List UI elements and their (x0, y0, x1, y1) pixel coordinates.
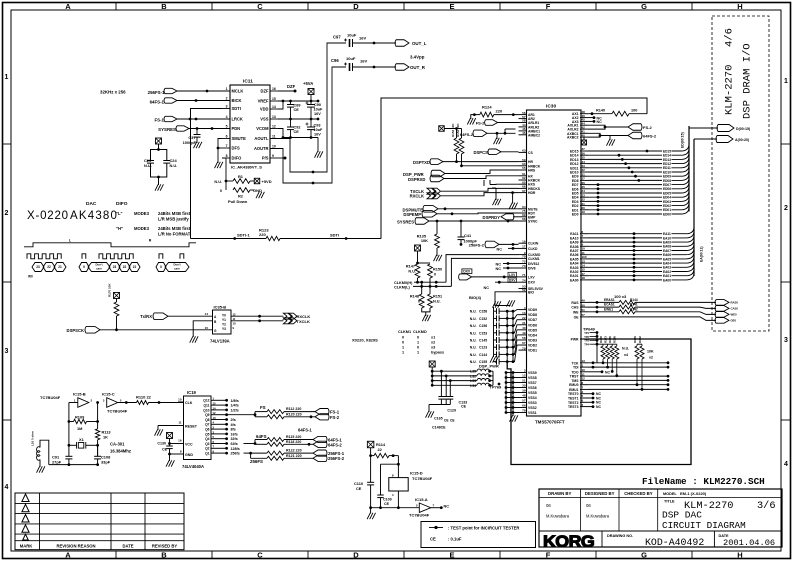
svg-text:DSPRXD: DSPRXD (408, 177, 425, 182)
svg-text:0: 0 (160, 265, 162, 269)
svg-text:N.U.: N.U. (433, 300, 441, 304)
svg-text:DESIGNED BY: DESIGNED BY (585, 491, 615, 496)
resistors ERAS1 R144 rows 100 x3 (588, 294, 738, 323)
wire VCOM to lower rail and ground (278, 129, 323, 158)
svg-text:x1: x1 (431, 336, 435, 340)
op IC35-B 74LV139A (205, 305, 236, 344)
svg-text:14: 14 (205, 312, 209, 316)
svg-text:3/6: 3/6 (757, 500, 776, 512)
node P/S test point (278, 157, 287, 160)
node DXV wire NC (484, 278, 519, 290)
svg-text:Pull Down: Pull Down (228, 199, 248, 204)
node DSPRDY output (483, 214, 519, 223)
revision table (15, 493, 184, 550)
svg-text:16V: 16V (360, 59, 367, 64)
svg-text:x4: x4 (624, 353, 628, 357)
svg-text:VREF: VREF (258, 99, 269, 104)
svg-text:C156: C156 (479, 324, 487, 328)
svg-text:TP4: TP4 (584, 343, 589, 347)
svg-text:CE: CE (444, 419, 449, 423)
capacitors C133 C129 C165 CE (426, 370, 468, 430)
svg-text:Q1: Q1 (205, 452, 210, 456)
node SYSRES input connector (158, 126, 230, 132)
wire AOUTR to C96 (270, 67, 346, 184)
test point TP649 block (583, 327, 598, 363)
nodes NC on AX2 AX3 (588, 116, 602, 124)
svg-text:FileName : KLM2270.SCH: FileName : KLM2270.SCH (642, 476, 765, 487)
svg-text:27pF: 27pF (52, 460, 62, 465)
svg-text:21: 21 (522, 379, 526, 383)
svg-text:SMUTE: SMUTE (232, 136, 247, 141)
svg-text:CLKIN: CLKIN (528, 242, 539, 246)
svg-text:220: 220 (496, 108, 503, 113)
svg-text:VSS9: VSS9 (528, 371, 537, 375)
svg-text:R140: R140 (596, 109, 605, 113)
svg-text:ED0: ED0 (572, 213, 579, 217)
svg-text:KLM-2270: KLM-2270 (724, 65, 736, 115)
svg-text:DIFO: DIFO (232, 156, 243, 161)
svg-text:VDD6: VDD6 (528, 323, 537, 327)
svg-text:OE: OE (574, 315, 580, 319)
svg-text:DXV: DXV (463, 270, 471, 274)
svg-text:X0220, X829S: X0220, X829S (352, 338, 378, 343)
svg-text:1: 1 (417, 341, 419, 345)
svg-text:H: H (737, 551, 742, 560)
svg-text:FS-1: FS-1 (154, 118, 164, 123)
svg-text:IC19: IC19 (187, 390, 197, 395)
svg-text:R132: R132 (638, 336, 642, 343)
svg-text:Tx/RX: Tx/RX (140, 314, 152, 319)
svg-text:CA-301: CA-301 (110, 442, 125, 447)
power and capacitor C130 CE on VCC (157, 433, 174, 467)
resistors R130 R132 10K x2 (633, 336, 654, 391)
svg-text:64FS: 64FS (256, 434, 267, 439)
svg-text:21: 21 (58, 265, 62, 269)
svg-text:23: 23 (36, 265, 40, 269)
svg-text:R147: R147 (406, 265, 415, 269)
svg-text:NC: NC (496, 267, 502, 271)
svg-text:R170 10K: R170 10K (108, 283, 112, 297)
IC30 right pins (567, 110, 588, 409)
svg-text:C152: C152 (479, 317, 487, 321)
capacitor C92 CE (287, 119, 300, 138)
wire SDTI up and over to AX1 (381, 98, 647, 239)
svg-text:1: 1 (417, 351, 419, 355)
svg-text:N.U.: N.U. (214, 180, 222, 184)
svg-text:C93: C93 (314, 124, 321, 128)
svg-text:DIV8: DIV8 (528, 267, 536, 271)
svg-text:64FS-2: 64FS-2 (328, 442, 342, 447)
nodes 64FS-1 64FS-2 connectors (313, 436, 342, 447)
svg-text:Q8: Q8 (205, 418, 210, 422)
svg-text:SYNC: SYNC (528, 220, 538, 224)
svg-text:Q9: Q9 (205, 413, 210, 417)
svg-text:24Bits MSB first: 24Bits MSB first (158, 226, 191, 231)
svg-text:R133: R133 (603, 336, 607, 343)
node D(00:15) connector (717, 125, 751, 132)
svg-text:NC: NC (496, 263, 502, 267)
svg-text:N.U.: N.U. (170, 163, 178, 168)
svg-text:Q7: Q7 (205, 423, 210, 427)
svg-text:EMU0: EMU0 (569, 383, 579, 387)
svg-text:TP649: TP649 (583, 327, 596, 332)
svg-text:22: 22 (47, 265, 51, 269)
svg-text:E: E (449, 551, 454, 560)
node FS-1 input connector (154, 116, 230, 122)
svg-text:R148: R148 (410, 295, 419, 299)
svg-text:2: 2 (226, 97, 228, 101)
svg-text:care: care (96, 267, 102, 271)
svg-text:Y1: Y1 (222, 318, 226, 322)
svg-text:1: 1 (402, 346, 404, 350)
svg-text:10K: 10K (647, 350, 654, 354)
svg-text:CLKM1: CLKM1 (528, 257, 540, 261)
svg-text:VSS2: VSS2 (528, 406, 537, 410)
svg-text:REVISED BY: REVISED BY (152, 544, 178, 549)
svg-text:VSS1: VSS1 (528, 411, 537, 415)
svg-text:care: care (174, 267, 180, 271)
svg-text:R115 220: R115 220 (286, 435, 301, 439)
svg-text:74LV139A: 74LV139A (210, 339, 230, 344)
power +5VA (303, 81, 314, 101)
svg-text:4: 4 (5, 484, 9, 491)
svg-text:58: 58 (522, 336, 526, 340)
svg-text:CE: CE (162, 448, 168, 452)
svg-text:Q12: Q12 (203, 399, 209, 403)
svg-text:CE: CE (294, 108, 300, 112)
svg-text:F: F (546, 2, 551, 11)
svg-text:C144: C144 (479, 353, 487, 357)
node 64FS-2 output right (582, 132, 657, 145)
svg-text:D: D (353, 551, 359, 560)
resistor R109 1M (69, 415, 98, 432)
svg-text:IC_AK4380VT_S: IC_AK4380VT_S (231, 165, 262, 170)
svg-text:10uF: 10uF (346, 56, 356, 61)
bus ED15-ED0 to DRAM connector (588, 126, 718, 216)
svg-text:ARLR1: ARLR1 (528, 121, 539, 125)
dashed box KLM-2270 DSP DRAM I/O 4/6 (712, 16, 769, 331)
svg-text:ECAS1: ECAS1 (604, 303, 615, 307)
node DSPCS input (473, 149, 518, 155)
wire VDD to VREF rail (278, 101, 283, 109)
node DZF test point (278, 84, 297, 93)
svg-text:PDN: PDN (232, 126, 241, 131)
ground on pin B (190, 321, 213, 343)
svg-text:13: 13 (522, 311, 526, 315)
svg-text:C129: C129 (447, 409, 456, 413)
inverter IC15-B TC7BU04F (40, 392, 93, 408)
svg-text:74: 74 (522, 278, 526, 282)
svg-text:AK4380: AK4380 (70, 210, 118, 222)
crystal X1 CA-301 (69, 437, 131, 454)
svg-text:10K: 10K (421, 238, 428, 243)
svg-text:bypass: bypass (431, 351, 444, 355)
svg-text:OE0: OE0 (731, 319, 737, 323)
op IC30 TMS57070FFT DSP (527, 104, 582, 425)
capacitors C158-C155 N.U. VDD decoupling (470, 301, 519, 364)
svg-text:C123: C123 (479, 346, 487, 350)
svg-text:0: 0 (220, 189, 222, 193)
svg-text:EA00: EA00 (570, 278, 579, 282)
svg-text:R151: R151 (433, 295, 442, 299)
svg-text:0: 0 (402, 336, 404, 340)
svg-text:CE: CE (356, 486, 362, 491)
resistors R152 R153 10K pull-ups (439, 123, 519, 166)
svg-text:DSPEMP: DSPEMP (403, 212, 421, 217)
svg-text:VDD2: VDD2 (528, 344, 537, 348)
svg-text:MODE3: MODE3 (134, 226, 150, 231)
svg-text:ED00: ED00 (663, 212, 671, 216)
svg-text:FS-2: FS-2 (330, 415, 340, 420)
svg-text:50: 50 (582, 303, 586, 307)
svg-text:CLK: CLK (185, 401, 193, 405)
ground and node FS-2 input left (476, 120, 519, 126)
svg-text:14: 14 (272, 105, 276, 109)
svg-text:CLKM0(H): CLKM0(H) (394, 281, 413, 285)
svg-text:C41: C41 (464, 233, 472, 238)
svg-text:2: 2 (784, 205, 788, 212)
svg-text:Y0: Y0 (222, 313, 226, 317)
svg-text:VCC: VCC (185, 442, 193, 446)
svg-text:0: 0 (417, 336, 419, 340)
svg-text:11: 11 (178, 421, 182, 425)
svg-text:11: 11 (272, 135, 276, 139)
part label X-0220 AK4380 (27, 201, 191, 237)
svg-text:VDD3: VDD3 (528, 338, 537, 342)
svg-text:G: G (641, 2, 647, 11)
svg-text:C92: C92 (294, 126, 301, 130)
svg-text:CE: CE (294, 130, 300, 134)
buffer IC15-D TC7BU04F (381, 456, 433, 510)
svg-text:R118 220: R118 220 (286, 440, 301, 444)
svg-text:N.U.: N.U. (470, 331, 477, 335)
svg-text:VDD1: VDD1 (528, 349, 537, 353)
node OUT_L output connector (395, 40, 427, 47)
svg-text:Q3: Q3 (205, 442, 210, 446)
resistor R110 22 (118, 395, 184, 405)
svg-text:10uF: 10uF (347, 33, 357, 38)
svg-text:x2: x2 (649, 356, 653, 360)
svg-text:Q6: Q6 (205, 428, 210, 432)
svg-text:5: 5 (226, 125, 228, 129)
wire SDTI from pin3 down (191, 109, 223, 239)
svg-text:VDD7: VDD7 (528, 318, 537, 322)
svg-text:R121 220: R121 220 (286, 454, 302, 458)
svg-text:NC: NC (444, 505, 450, 509)
svg-text:FS-1: FS-1 (330, 410, 340, 415)
svg-text:1/4fs: 1/4fs (231, 404, 239, 408)
node A(00:20) connector (716, 136, 750, 143)
node LXV arrow to pin (459, 272, 519, 280)
capacitor C109 CE (377, 464, 391, 509)
svg-text:33pF: 33pF (101, 460, 111, 465)
svg-text:NC: NC (605, 371, 610, 375)
node NC on CLKD (497, 247, 519, 252)
svg-text:N.U.: N.U. (470, 339, 477, 343)
svg-text:DIFO: DIFO (116, 201, 128, 207)
svg-text:64fs: 64fs (231, 442, 238, 446)
svg-text:67: 67 (522, 189, 526, 193)
svg-text:52: 52 (522, 288, 526, 292)
svg-text:TC7BU04F: TC7BU04F (40, 395, 61, 400)
oscillator feedback network (68, 401, 100, 456)
svg-text:A(00:20): A(00:20) (735, 138, 750, 142)
svg-text:12: 12 (522, 374, 526, 378)
svg-text:4: 4 (784, 461, 788, 468)
svg-text:CLKM(L): CLKM(L) (394, 285, 411, 289)
svg-text:R110 22: R110 22 (136, 395, 152, 400)
node DSPTXD input (413, 159, 519, 167)
svg-text:10uF: 10uF (314, 128, 324, 132)
svg-text:DSP DRAM I/O: DSP DRAM I/O (742, 43, 754, 119)
svg-text:8fs: 8fs (231, 428, 236, 432)
svg-text:22: 22 (123, 265, 127, 269)
nodes NC on DIV512 DIV8 (496, 262, 519, 271)
resistor R135 10K (417, 221, 442, 261)
node 256FS-1 input connector (148, 88, 230, 95)
svg-text:21: 21 (133, 265, 137, 269)
svg-text:DSPCS: DSPCS (473, 150, 488, 155)
op IC11 AK4380 DAC (222, 79, 278, 170)
resistor R124 220 (467, 104, 518, 124)
svg-text:R128: R128 (599, 336, 603, 343)
svg-text:16V: 16V (314, 112, 321, 116)
svg-text:30: 30 (522, 384, 526, 388)
svg-text:B: B (161, 551, 167, 560)
svg-text:RAS0: RAS0 (731, 301, 739, 305)
svg-text:39: 39 (522, 389, 526, 393)
svg-text:CE: CE (461, 405, 467, 409)
svg-text:58: 58 (522, 119, 526, 123)
svg-text:BIO: BIO (528, 290, 534, 294)
svg-text:256FS: 256FS (250, 459, 263, 464)
svg-text:TC7BU04F: TC7BU04F (412, 476, 433, 481)
svg-text:4fs: 4fs (231, 423, 236, 427)
svg-text:0: 0 (418, 300, 420, 304)
svg-text:1: 1 (5, 74, 9, 81)
svg-text:23: 23 (113, 265, 117, 269)
svg-text:256FS-2: 256FS-2 (328, 456, 345, 461)
label 32KHz x 256 (100, 90, 126, 95)
svg-text:C145: C145 (479, 339, 487, 343)
svg-text:0: 0 (417, 346, 419, 350)
svg-text:OUT_L: OUT_L (412, 41, 427, 46)
svg-text:100: 100 (631, 109, 637, 113)
svg-text:VSS6: VSS6 (528, 386, 537, 390)
resistors R112 R120 220 FS outputs (227, 405, 315, 419)
svg-text:16fs: 16fs (231, 432, 238, 436)
svg-text:2fs: 2fs (231, 418, 236, 422)
svg-text:CHECKED BY: CHECKED BY (624, 491, 653, 496)
svg-text:16V: 16V (314, 133, 321, 137)
wires TCK TDI TMS EMU rows (588, 361, 669, 409)
svg-text:L32: L32 (470, 374, 476, 378)
svg-text:A: A (65, 551, 71, 560)
svg-text:73: 73 (522, 264, 526, 268)
svg-text:C148CE: C148CE (432, 426, 446, 430)
svg-text:3.4Vpp: 3.4Vpp (410, 55, 425, 60)
svg-text:CE: CE (430, 537, 436, 542)
svg-text:SDTI: SDTI (330, 233, 339, 238)
svg-text:R136: R136 (613, 336, 617, 343)
svg-text:3: 3 (5, 348, 9, 355)
ground on HDR row (509, 191, 517, 209)
svg-text:EA(00:11): EA(00:11) (700, 247, 704, 262)
nodes TXCLK RXCLK inputs (410, 180, 519, 205)
svg-text:22: 22 (522, 316, 526, 320)
svg-text:DRAWN BY: DRAWN BY (548, 491, 572, 496)
svg-text:Q2: Q2 (205, 447, 210, 451)
resistor R140 100 on AX1 (588, 109, 647, 117)
svg-text:L/R No FORMAT: L/R No FORMAT (158, 232, 191, 237)
svg-text:R112 220: R112 220 (286, 407, 301, 411)
svg-text:"L": "L" (116, 211, 123, 216)
svg-text:2001.04.06: 2001.04.06 (723, 538, 775, 548)
svg-text:E: E (449, 2, 454, 11)
ground under C110 (367, 506, 375, 519)
svg-text:DSPTXD: DSPTXD (413, 160, 430, 165)
svg-text:49: 49 (582, 299, 586, 303)
svg-text:55: 55 (522, 166, 526, 170)
svg-text:32KHz x 256: 32KHz x 256 (100, 90, 126, 95)
svg-text:N.U.: N.U. (470, 360, 477, 364)
svg-text:VSS3: VSS3 (528, 401, 537, 405)
svg-text:DZF: DZF (261, 89, 269, 94)
svg-text:IC30: IC30 (546, 104, 556, 110)
svg-text:100 x3: 100 x3 (614, 294, 627, 299)
svg-text:2: 2 (5, 210, 9, 217)
svg-text:R130: R130 (633, 336, 637, 343)
svg-text:B: B (161, 2, 167, 11)
svg-text:18: 18 (582, 276, 586, 280)
svg-text:11: 11 (233, 317, 236, 321)
capacitor C89 CE (287, 101, 300, 119)
svg-text:64FS-1: 64FS-1 (298, 428, 312, 433)
KORG logo (543, 531, 775, 551)
capacitor C41 1000pF (458, 221, 478, 246)
label 3.4Vpp (410, 55, 425, 60)
resistors R122 R121 220 256FS outputs (244, 449, 314, 464)
svg-text:NC: NC (484, 286, 490, 290)
capacitor C37 1000pF (183, 129, 202, 149)
svg-text:DFS: DFS (232, 146, 240, 151)
svg-text:TDI: TDI (573, 366, 579, 370)
svg-text:R152 10K: R152 10K (451, 123, 455, 137)
node FS-2 output right (588, 124, 652, 131)
resistors R148 0 / R151 N.U. (410, 282, 442, 321)
wire VREF rail (278, 100, 319, 103)
svg-text:VSS4: VSS4 (528, 396, 537, 400)
svg-text:R109: R109 (75, 415, 85, 420)
svg-text:A: A (65, 2, 71, 11)
svg-text:256FS-2: 256FS-2 (469, 243, 485, 248)
wire VSS rail (278, 118, 319, 139)
svg-text:ED(00:15): ED(00:15) (681, 132, 685, 148)
svg-text:: TEST point for INCIRCUIT TES: : TEST point for INCIRCUIT TESTER (448, 526, 519, 531)
svg-text:31: 31 (522, 321, 526, 325)
label X0220 X829S (352, 338, 378, 343)
wire VSS ground rail (505, 371, 519, 422)
capacitor C110 CE (354, 456, 374, 508)
svg-text:VSS7: VSS7 (528, 381, 537, 385)
svg-text:BIO(4): BIO(4) (469, 295, 482, 300)
svg-text:R120 220: R120 220 (286, 412, 302, 416)
timing waveform LRCK (24, 239, 196, 247)
svg-text:FS: FS (260, 405, 266, 410)
svg-text:X1: X1 (79, 437, 85, 442)
capacitor C96 10uF 16V (331, 56, 396, 71)
svg-text:TP2: TP2 (584, 335, 589, 339)
